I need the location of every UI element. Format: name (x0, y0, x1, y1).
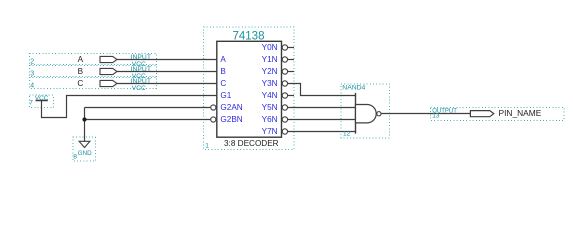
svg-text:2: 2 (30, 59, 34, 66)
svg-text:C: C (77, 79, 83, 88)
svg-text:Y3N: Y3N (262, 79, 278, 88)
svg-text:Y0N: Y0N (262, 43, 278, 52)
svg-text:Y2N: Y2N (262, 67, 278, 76)
svg-text:B: B (78, 67, 84, 76)
svg-text:Y5N: Y5N (262, 103, 278, 112)
svg-text:G2AN: G2AN (220, 103, 242, 112)
svg-text:Y6N: Y6N (262, 115, 278, 124)
svg-text:3: 3 (30, 71, 34, 78)
svg-text:GND: GND (78, 150, 92, 157)
svg-text:4: 4 (30, 83, 34, 90)
svg-text:INPUT: INPUT (131, 78, 151, 85)
svg-text:Y1N: Y1N (262, 55, 278, 64)
svg-text:A: A (78, 55, 84, 64)
svg-text:8: 8 (73, 154, 77, 161)
svg-text:G2BN: G2BN (220, 115, 242, 124)
svg-text:PIN_NAME: PIN_NAME (499, 108, 542, 118)
svg-text:12: 12 (343, 131, 351, 138)
svg-text:3:8 DECODER: 3:8 DECODER (224, 139, 279, 148)
svg-text:C: C (220, 79, 226, 88)
svg-text:NAND4: NAND4 (342, 84, 365, 91)
svg-text:G1: G1 (220, 91, 231, 100)
svg-text:VCC: VCC (35, 95, 49, 102)
svg-text:INPUT: INPUT (131, 66, 151, 73)
svg-text:A: A (220, 55, 226, 64)
svg-text:7: 7 (29, 99, 33, 106)
svg-text:1: 1 (205, 143, 209, 150)
svg-text:Y4N: Y4N (262, 91, 278, 100)
svg-text:74138: 74138 (233, 31, 265, 43)
svg-text:B: B (220, 67, 226, 76)
svg-text:INPUT: INPUT (131, 54, 151, 61)
svg-text:Y7N: Y7N (262, 127, 278, 136)
svg-text:VCC: VCC (132, 85, 146, 92)
svg-text:13: 13 (432, 113, 440, 120)
